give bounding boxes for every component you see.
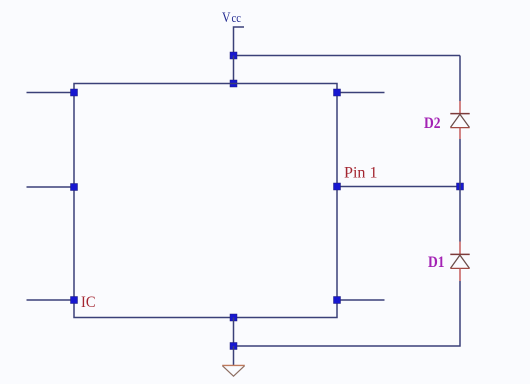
label VCC (222, 10, 241, 26)
diode D2 (450, 101, 469, 139)
node IC top pin (230, 80, 237, 87)
wire right vertical upper (459, 56, 461, 102)
wire IC bottom to ground net (233, 318, 235, 347)
svg-text:Pin 1: Pin 1 (344, 165, 378, 182)
wire right vertical middle (459, 139, 461, 242)
node ground junction (230, 343, 237, 350)
power symbol VCC (234, 27, 245, 56)
wire ground lead (233, 346, 235, 365)
node left pin bottom (71, 297, 78, 304)
wire right pin stub top (337, 92, 385, 94)
wire VCC stem to IC top (233, 56, 235, 84)
wire left pin stub bottom (27, 299, 75, 301)
IC body (74, 84, 337, 318)
svg-text:V: V (222, 10, 231, 26)
wire right pin stub bottom (337, 299, 385, 301)
node diode junction (457, 183, 464, 190)
node left pin middle (71, 184, 78, 191)
svg-text:IC: IC (81, 294, 96, 311)
node VCC junction (230, 52, 237, 59)
svg-text:cc: cc (232, 10, 242, 25)
ground (222, 365, 245, 376)
node IC bottom pin (230, 314, 237, 321)
node right pin top (334, 89, 341, 96)
wire VCC feeder top (234, 55, 461, 57)
svg-text:D1: D1 (428, 254, 445, 271)
svg-text:D2: D2 (424, 115, 441, 132)
node Pin 1 on IC (334, 183, 341, 190)
wire left pin stub top (27, 92, 75, 94)
wire right vertical lower (234, 281, 461, 346)
node right pin bottom (334, 297, 341, 304)
wire left pin stub middle (27, 186, 75, 188)
wire Pin 1 net (337, 186, 460, 188)
diode D1 (450, 242, 469, 282)
node left pin top (71, 89, 78, 96)
